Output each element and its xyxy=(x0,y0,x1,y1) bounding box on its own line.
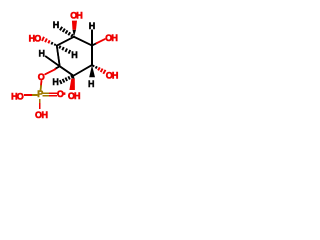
bond V3 to OH upper-right, red half xyxy=(97,39,105,43)
bond P-HO left, phosphorus half xyxy=(31,94,37,96)
ring edge V1-V2 (overdraw pass) xyxy=(57,37,74,46)
bond V3 to OH upper-right, black half xyxy=(92,43,97,45)
ring edge V2-V3 (overdraw pass) xyxy=(74,37,92,46)
bond V6 to H mid-left xyxy=(46,56,60,66)
bond V3 to OH upper-right, black half (overdraw pass) xyxy=(92,43,97,45)
svg-text:H: H xyxy=(53,20,60,30)
small nub on right of P=O oxygen xyxy=(63,92,65,95)
bond V6 to H mid-left (overdraw pass) xyxy=(46,56,60,66)
svg-text:O: O xyxy=(38,72,45,82)
ring edge V6-V1 (overdraw pass) xyxy=(57,46,60,67)
wedge V5 to OH bottom, red part xyxy=(69,79,75,90)
hash wedge V1 to inside H xyxy=(59,46,70,54)
hash wedge V4 to OH lower-right xyxy=(93,65,106,74)
ring edge V4-V5 xyxy=(74,65,93,76)
wedge V2 to OH top, black part near carbon xyxy=(73,30,77,37)
hash wedge V5 to H bottom-left xyxy=(60,75,73,84)
svg-text:OH: OH xyxy=(70,10,82,20)
double bond P=O upper line, red half xyxy=(50,92,56,94)
bond V6 to ester O, black half xyxy=(55,66,59,68)
bond P to OH below, phosphorus half xyxy=(39,100,41,104)
ring edge V5-V6 (overdraw pass) xyxy=(60,66,74,75)
wedge V5 to OH bottom, black part near carbon xyxy=(72,76,74,79)
svg-text:H: H xyxy=(88,79,95,89)
bond P to OH below, red half xyxy=(39,104,41,108)
svg-text:OH: OH xyxy=(106,70,118,80)
double bond P=O lower line, phosphorus half xyxy=(43,95,50,97)
svg-text:P: P xyxy=(37,89,43,99)
ring edge V5-V6 xyxy=(60,66,74,75)
ring edge V6-V1 xyxy=(57,46,60,67)
svg-text:HO: HO xyxy=(11,92,24,102)
svg-text:OH: OH xyxy=(105,33,117,43)
bond ester O to P, red half xyxy=(40,81,42,86)
hash wedge V1 to HO left xyxy=(42,37,55,46)
bond V6 to ester O, black half (overdraw pass) xyxy=(55,66,59,68)
wedge V4 to H bottom, black xyxy=(89,65,95,77)
bond V3 to H top-right, vertical xyxy=(91,31,93,46)
bond ester O to P, phosphorus half (overdraw pass) xyxy=(40,86,42,91)
bond P-HO left, red half xyxy=(25,94,31,96)
wedge V2 to OH top, red part xyxy=(72,21,77,30)
svg-text:H: H xyxy=(89,21,96,31)
ring edge V1-V2 xyxy=(57,37,74,46)
svg-text:H: H xyxy=(71,50,78,60)
hash wedge V2 to H top-left xyxy=(60,27,73,37)
bond V6 to ester O, red half xyxy=(45,69,55,74)
bond V6 to ester O, red half (overdraw pass) xyxy=(45,69,55,74)
double bond P=O lower line, red half xyxy=(50,95,56,97)
ring edge V2-V3 xyxy=(74,37,92,46)
bond ester O to P, phosphorus half xyxy=(40,86,42,91)
svg-text:OH: OH xyxy=(68,91,80,101)
bond ester O to P, red half (overdraw pass) xyxy=(40,81,42,86)
bond V3 to OH upper-right, red half (overdraw pass) xyxy=(97,39,105,43)
svg-text:HO: HO xyxy=(29,33,42,43)
svg-text:H: H xyxy=(52,77,59,87)
ring edge V4-V5 (overdraw pass) xyxy=(74,65,93,76)
double bond P=O upper line, phosphorus half xyxy=(43,92,50,94)
svg-text:H: H xyxy=(39,48,46,58)
svg-text:OH: OH xyxy=(35,110,48,120)
svg-text:O: O xyxy=(57,89,64,99)
ring edge V3-V4 vertical xyxy=(91,46,93,66)
